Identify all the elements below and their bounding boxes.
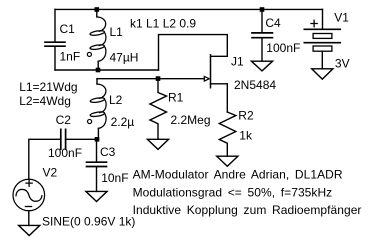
label L windings note bbox=[19, 80, 77, 108]
svg-text:SINE(0 0.96V 1k): SINE(0 0.96V 1k) bbox=[42, 214, 135, 228]
label R1 bbox=[168, 91, 184, 105]
label k1 bbox=[130, 17, 196, 31]
label R2 bbox=[238, 109, 254, 123]
label V2 value bbox=[42, 214, 135, 228]
wire top rail bbox=[55, 8, 323, 10]
svg-text:1k: 1k bbox=[239, 129, 253, 143]
svg-text:1nF: 1nF bbox=[60, 50, 81, 64]
label L2 value bbox=[111, 115, 135, 129]
capacitor C1 bbox=[45, 42, 65, 46]
label C4 bbox=[265, 16, 281, 30]
wire C3 top lead bbox=[96, 139, 98, 161]
svg-text:C4: C4 bbox=[265, 16, 281, 30]
svg-text:L2=4Wdg: L2=4Wdg bbox=[19, 94, 71, 108]
wire C1 top lead bbox=[54, 9, 56, 41]
svg-text:L1: L1 bbox=[110, 25, 124, 39]
svg-text:AM-Modulator Andre Adrian, DL1: AM-Modulator Andre Adrian, DL1ADR bbox=[133, 168, 343, 182]
svg-text:Modulationsgrad <= 50%, f=735k: Modulationsgrad <= 50%, f=735kHz bbox=[133, 185, 333, 199]
wire C3 bottom lead bbox=[96, 167, 98, 191]
wire tank bottom horizontal bbox=[55, 69, 159, 71]
label R2 value bbox=[239, 129, 253, 143]
svg-text:V1: V1 bbox=[334, 11, 349, 25]
label C1 bbox=[60, 22, 76, 36]
svg-text:10nF: 10nF bbox=[101, 171, 128, 185]
label C3 bbox=[100, 145, 116, 159]
ground V1 bbox=[312, 69, 333, 79]
svg-text:2N5484: 2N5484 bbox=[234, 78, 276, 92]
wire C4 bottom lead bbox=[261, 39, 263, 62]
label R1 value bbox=[171, 113, 211, 127]
svg-text:C3: C3 bbox=[100, 145, 116, 159]
wire C1 bottom lead bbox=[54, 47, 56, 70]
wire C2 left to V2 bbox=[29, 139, 61, 179]
label J1 type bbox=[234, 78, 276, 92]
svg-text:47µH: 47µH bbox=[110, 51, 139, 65]
svg-text:2.2µ: 2.2µ bbox=[111, 115, 135, 129]
wire V2 bottom lead bbox=[28, 211, 30, 226]
ground R1 bbox=[147, 139, 168, 149]
label C2 value bbox=[48, 146, 82, 160]
svg-text:100nF: 100nF bbox=[266, 41, 300, 55]
label C4 value bbox=[266, 41, 300, 55]
label L1 value bbox=[110, 51, 139, 65]
label V1 value bbox=[335, 57, 350, 71]
label L2 bbox=[109, 93, 123, 107]
ground C4 bbox=[251, 61, 272, 71]
inductor L2 bbox=[88, 79, 107, 140]
wire V1 bottom lead bbox=[321, 51, 323, 69]
transistor J1 gate arrow bbox=[204, 76, 209, 81]
junction L2 bottom bbox=[95, 137, 100, 142]
capacitor C3 bbox=[87, 162, 107, 166]
label V1 bbox=[334, 11, 349, 25]
label L1 bbox=[110, 25, 124, 39]
svg-text:R1: R1 bbox=[168, 91, 184, 105]
svg-text:C1: C1 bbox=[60, 22, 76, 36]
junction C4 top bbox=[260, 7, 265, 12]
svg-text:L2: L2 bbox=[109, 93, 123, 107]
battery V1 bbox=[304, 20, 340, 51]
svg-text:Induktive Kopplung zum Radioem: Induktive Kopplung zum Radioempfänger bbox=[133, 203, 362, 217]
transistor J1 drain lead bbox=[211, 55, 228, 57]
wire C2 right to node bbox=[66, 138, 97, 140]
junction gate R1 bbox=[156, 76, 161, 81]
wire gate net bbox=[97, 78, 204, 80]
svg-text:L1=21Wdg: L1=21Wdg bbox=[19, 80, 77, 94]
wire C4 top lead bbox=[261, 12, 263, 32]
ground V2 bbox=[19, 225, 40, 235]
label C1 value bbox=[60, 50, 81, 64]
junction L1 bottom bbox=[96, 68, 101, 73]
transistor J1 source lead bbox=[211, 83, 228, 85]
voltage source V2 bbox=[13, 179, 45, 211]
capacitor C2 bbox=[61, 129, 66, 149]
capacitor C4 bbox=[252, 33, 272, 38]
junction L1 top bbox=[95, 7, 100, 12]
svg-text:J1: J1 bbox=[231, 55, 244, 69]
wire drain riser bbox=[159, 35, 228, 70]
svg-text:2.2Meg: 2.2Meg bbox=[171, 113, 211, 127]
ground C3 bbox=[86, 191, 107, 201]
label C3 value bbox=[101, 171, 128, 185]
svg-text:k1 L1 L2 0.9: k1 L1 L2 0.9 bbox=[130, 17, 196, 31]
inductor L1 bbox=[87, 12, 106, 71]
svg-text:V2: V2 bbox=[43, 166, 58, 180]
wire V1 top lead bbox=[322, 9, 324, 29]
comment text block bbox=[133, 168, 362, 217]
svg-text:100nF: 100nF bbox=[48, 146, 82, 160]
resistor R2 bbox=[219, 112, 236, 156]
svg-text:3V: 3V bbox=[335, 57, 350, 71]
ground R2 bbox=[217, 156, 238, 166]
label C2 bbox=[56, 113, 72, 127]
label V2 bbox=[43, 166, 58, 180]
svg-text:R2: R2 bbox=[238, 109, 254, 123]
wire J1 source to R2 bbox=[226, 84, 228, 112]
label J1 bbox=[231, 55, 244, 69]
transistor J1 channel bbox=[210, 55, 212, 88]
svg-text:C2: C2 bbox=[56, 113, 72, 127]
resistor R1 bbox=[150, 80, 167, 139]
